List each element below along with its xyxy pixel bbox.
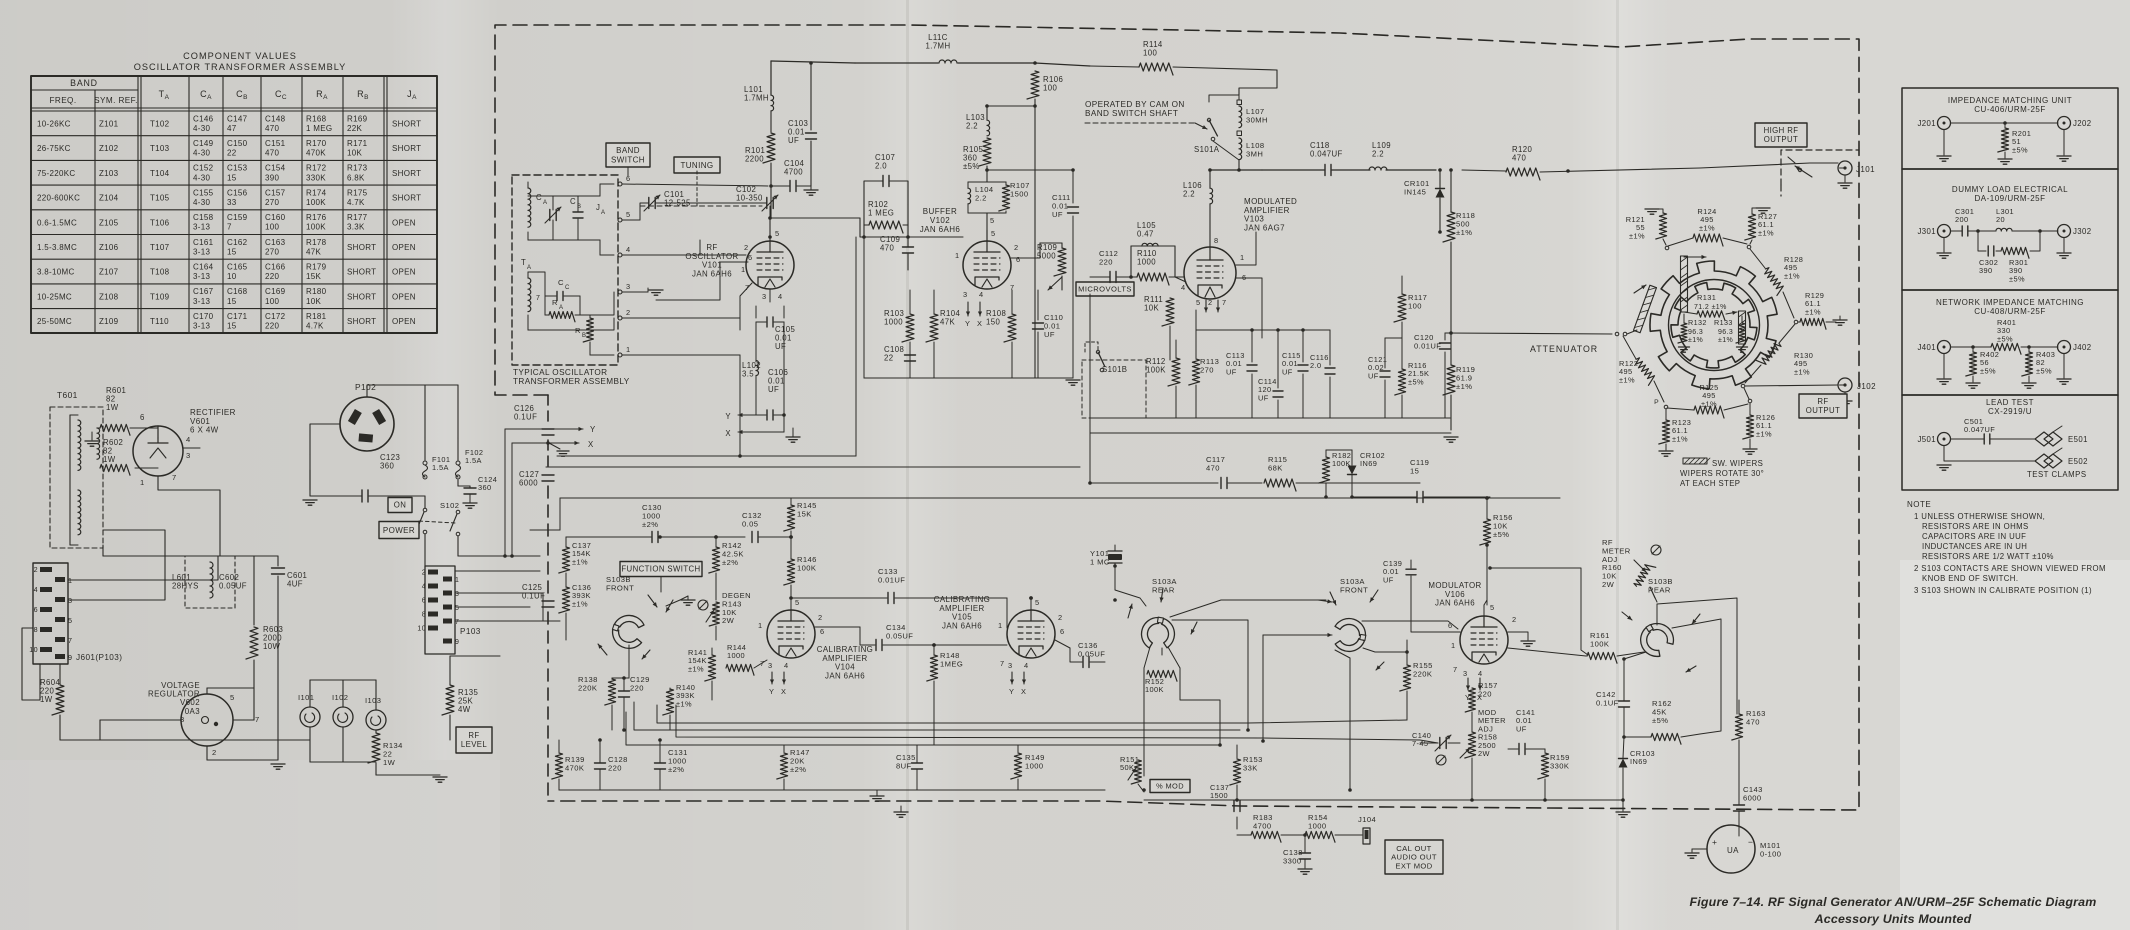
svg-text:NETWORK IMPEDANCE MATCHING: NETWORK IMPEDANCE MATCHING [1936,298,2084,307]
terminals on transformer box [618,182,622,186]
jack J402 [2058,341,2071,354]
svg-text:SHORT: SHORT [347,243,376,252]
svg-text:SHORT: SHORT [347,292,376,301]
svg-text:INDUCTANCES ARE IN UH: INDUCTANCES ARE IN UH [1922,542,2027,551]
svg-text:C1276000: C1276000 [519,470,539,488]
svg-text:R181: R181 [306,312,327,321]
capacitor CB [573,211,583,213]
svg-text:I102: I102 [332,693,348,702]
svg-text:3: 3 [455,591,459,598]
svg-text:C: C [536,193,542,202]
svg-text:R180: R180 [306,287,327,296]
svg-text:26-75KC: 26-75KC [37,144,71,153]
tuning label [674,157,720,173]
svg-text:MICROVOLTS: MICROVOLTS [1078,285,1132,294]
svg-text:2 S103 CONTACTS ARE SHOWN VIE: 2 S103 CONTACTS ARE SHOWN VIEWED FROM [1914,564,2106,573]
svg-text:C168: C168 [227,287,248,296]
svg-text:CAL OUTAUDIO OUTEXT MOD: CAL OUTAUDIO OUTEXT MOD [1391,844,1437,871]
svg-text:9: 9 [68,653,72,662]
svg-text:C: C [565,285,570,291]
svg-text:1: 1 [626,345,631,354]
attenuator wiper arm 2 [1634,285,1657,332]
svg-text:75-220KC: 75-220KC [37,169,75,178]
test clamp E501 [2035,432,2062,446]
svg-text:R125495±1%: R125495±1% [1699,383,1718,408]
svg-text:SHORT: SHORT [392,144,421,153]
svg-text:J201: J201 [1917,119,1936,128]
wire attenuator input [1445,333,1612,334]
svg-text:10K: 10K [306,297,321,306]
svg-text:±1%: ±1% [1688,337,1703,344]
wire mid column x856 [855,237,857,456]
wire V103 plate pins [1236,232,1256,265]
svg-text:1: 1 [955,251,960,260]
svg-text:33: 33 [227,198,237,207]
svg-text:J301: J301 [1917,227,1936,236]
resistor R106 [1027,71,1039,99]
svg-text:Accessory Units Mounted: Accessory Units Mounted [1814,912,1972,926]
svg-text:22K: 22K [347,124,362,133]
svg-text:R179: R179 [306,263,327,272]
svg-text:IMPEDANCE MATCHING UNIT: IMPEDANCE MATCHING UNIT [1948,96,2072,105]
svg-text:4: 4 [34,585,38,594]
svg-text:A: A [543,200,547,206]
svg-text:J102: J102 [1857,382,1876,391]
svg-text:7: 7 [1222,298,1227,307]
svg-text:R603200010W: R603200010W [263,625,283,651]
svg-text:2: 2 [1058,613,1063,622]
svg-text:J401: J401 [1917,343,1936,352]
svg-text:X: X [588,440,594,449]
function switch label [620,562,702,577]
svg-text:5: 5 [1035,598,1040,607]
svg-text:C148: C148 [265,114,286,123]
wire S103B to R138 [612,677,629,679]
svg-text:C1044700: C1044700 [784,159,805,177]
svg-text:1 MEG: 1 MEG [306,124,332,133]
svg-text:8: 8 [422,612,426,619]
svg-text:15: 15 [227,173,237,182]
svg-text:C157: C157 [265,188,286,197]
lamp I102 [333,707,353,727]
svg-text:5: 5 [455,605,459,612]
tube V106 modulator [1460,616,1508,664]
resistor R152 [1144,647,1150,668]
svg-text:POWER: POWER [383,526,415,535]
wire filter bus [103,555,278,557]
svg-text:5: 5 [990,216,995,225]
svg-text:S103BFRONT: S103BFRONT [606,575,634,592]
ground V106 plate [1508,632,1528,640]
svg-text:C1383300: C1383300 [1283,848,1303,865]
svg-text:WIPERS ROTATE 30°: WIPERS ROTATE 30° [1680,469,1764,478]
svg-text:T601: T601 [57,390,78,400]
svg-text:2: 2 [34,565,38,574]
svg-text:J104: J104 [1358,815,1376,824]
wire regulator [253,688,255,720]
attenuator inner gear [1671,283,1757,368]
svg-text:CALIBRATINGAMPLIFIERV104JAN 6A: CALIBRATINGAMPLIFIERV104JAN 6AH6 [817,645,873,680]
svg-text:FUNCTION SWITCH: FUNCTION SWITCH [621,565,700,574]
wire mod amp cathode bus [1169,359,1171,361]
svg-text:100: 100 [265,223,279,232]
wire S101A stub [1213,141,1239,160]
lead test box [1902,395,2118,490]
wire grid coupling to buffer [770,217,860,219]
svg-text:R112100K: R112100K [1146,357,1166,375]
svg-text:R139470K: R139470K [565,755,585,772]
svg-text:R177: R177 [347,213,368,222]
svg-text:P: P [1654,399,1659,406]
resistor R135 [442,685,454,715]
network impedance matching box [1902,290,2118,395]
resistor R402 [1966,352,1977,376]
wire V104 plate row [1006,598,1008,628]
wire S102 to P103 [424,534,426,566]
tube V104 calibrating amplifier [767,610,815,658]
wire Y101 to S103A [1115,566,1146,606]
svg-text:C: C [570,197,576,206]
svg-text:R176: R176 [306,213,327,222]
svg-text:C154: C154 [265,164,286,173]
svg-text:R152100K: R152100K [1145,677,1164,694]
svg-text:2: 2 [1208,298,1213,307]
svg-text:8: 8 [34,625,38,634]
svg-text:F1021.5A: F1021.5A [465,448,483,465]
ground J201 [1943,130,1945,155]
svg-text:P102: P102 [355,382,376,392]
wire band switch terminals [622,184,768,186]
svg-text:J302: J302 [2073,227,2092,236]
svg-text:CALIBRATINGAMPLIFIERV105JAN 6A: CALIBRATINGAMPLIFIERV105JAN 6AH6 [934,595,990,630]
svg-text:R1541000: R1541000 [1308,813,1328,830]
svg-text:NOTE: NOTE [1907,500,1931,509]
wire lower rail C [676,705,1438,743]
svg-text:6: 6 [34,605,38,614]
degen R143 pot [698,600,708,610]
wire P102 left [310,424,340,455]
svg-text:4-30: 4-30 [193,124,210,133]
svg-text:R1834700: R1834700 [1253,813,1273,830]
svg-text:100K: 100K [306,223,326,232]
ground P102 [303,499,317,501]
resistor R602 [100,464,130,475]
svg-text:15: 15 [227,297,237,306]
svg-text:S102: S102 [440,501,459,510]
svg-text:2: 2 [1014,243,1019,252]
voltage regulator V602 [181,694,233,746]
svg-text:4: 4 [979,290,984,299]
svg-text:S101B: S101B [1102,365,1127,374]
wire J501 to E502 [1944,446,2035,461]
svg-text:6: 6 [748,253,753,262]
svg-text:OPEN: OPEN [392,292,416,301]
svg-text:KNOB END OF SWITCH.: KNOB END OF SWITCH. [1922,574,2018,583]
wire switch link A [1170,600,1326,617]
svg-text:C156: C156 [227,188,248,197]
svg-text:Y: Y [590,425,596,434]
svg-text:C1260.1UF: C1260.1UF [514,404,537,422]
svg-text:SW. WIPERS: SW. WIPERS [1712,459,1763,468]
connector P103 [425,566,455,654]
svg-text:5: 5 [1490,603,1495,612]
wire V101 pin7 [740,283,752,330]
svg-text:J: J [596,203,600,212]
svg-text:R155220K: R155220K [1413,661,1433,678]
svg-text:C163: C163 [265,238,286,247]
ground mod amp bottom [1090,432,1451,434]
svg-text:4: 4 [626,245,631,254]
svg-text:5: 5 [795,598,800,607]
svg-text:3: 3 [963,290,968,299]
wire lower rail A [634,702,1240,730]
svg-text:3-13: 3-13 [193,223,210,232]
svg-text:Y: Y [769,687,774,696]
svg-text:100: 100 [265,297,279,306]
svg-text:R178: R178 [306,238,327,247]
svg-text:R174: R174 [306,188,327,197]
svg-text:−: − [1748,837,1753,847]
svg-text:7: 7 [172,473,177,482]
wire tuning shaft [696,171,698,206]
% MOD label [1150,780,1190,793]
svg-text:T102: T102 [150,120,170,129]
svg-text:J601(P103): J601(P103) [76,653,122,662]
svg-text:Y: Y [725,412,731,421]
svg-text:J202: J202 [2073,119,2092,128]
svg-text:4-30: 4-30 [193,149,210,158]
relay contacts [1798,168,1801,171]
svg-text:HIGH RFOUTPUT: HIGH RFOUTPUT [1764,126,1799,144]
svg-text:C159: C159 [227,213,248,222]
wires PS to main box [455,606,530,608]
svg-text:RESISTORS ARE IN OHMS: RESISTORS ARE IN OHMS [1922,522,2029,531]
wire rectifier to filter [183,447,200,449]
svg-text:3-13: 3-13 [193,247,210,256]
impedance matching unit box [1902,88,2118,169]
wire lower ground bus [559,789,1105,791]
svg-text:R133: R133 [1714,318,1733,327]
svg-text:S103AFRONT: S103AFRONT [1340,577,1368,594]
svg-text:A: A [527,265,531,271]
wire L108 to plate bus [1238,160,1240,170]
wire lamps bottom [310,761,376,763]
meter M101 [1707,825,1755,873]
resistor R403 [2022,352,2033,376]
svg-text:Z104: Z104 [99,194,119,203]
wire S103A front contacts [1263,634,1330,636]
svg-text:5: 5 [775,229,780,238]
svg-text:DUMMY LOAD ELECTRICAL: DUMMY LOAD ELECTRICAL [1952,185,2068,194]
wire C117 row [1090,482,1218,484]
attenuator wiper arm 3 [1739,311,1746,344]
svg-text:6: 6 [1060,627,1065,636]
svg-text:X: X [977,319,982,328]
svg-text:220: 220 [265,272,279,281]
resistor R105 [979,138,991,166]
svg-text:R171: R171 [347,139,368,148]
svg-text:OSCILLATOR TRANSFORMER ASSEMBL: OSCILLATOR TRANSFORMER ASSEMBLY [134,62,347,72]
svg-text:E502: E502 [2068,457,2088,466]
svg-text:T108: T108 [150,268,170,277]
svg-text:1: 1 [741,265,746,274]
svg-text:330K: 330K [306,173,326,182]
svg-text:0.6-1.5MC: 0.6-1.5MC [37,218,77,227]
svg-text:4: 4 [1478,669,1483,678]
jack J301 [1938,225,1951,238]
svg-text:1: 1 [1451,641,1456,650]
svg-text:5: 5 [230,693,235,702]
svg-text:1: 1 [998,621,1003,630]
svg-text:Y1011 MC: Y1011 MC [1090,549,1110,566]
svg-text:7: 7 [255,715,260,724]
jack J201 [1938,117,1951,130]
svg-text:R159330K: R159330K [1550,753,1570,770]
svg-text:7: 7 [536,295,540,302]
wire attenuator to J102 [1741,384,1745,388]
wire V106 plate top [1484,600,1487,605]
svg-text:4-30: 4-30 [193,173,210,182]
svg-text:AT EACH STEP: AT EACH STEP [1680,479,1740,488]
svg-text:L1083MH: L1083MH [1246,141,1265,158]
wire top bus to R114 [1035,63,1090,66]
wire switch link B [1490,568,1588,655]
svg-text:25-50MC: 25-50MC [37,317,72,326]
svg-text:4-30: 4-30 [193,198,210,207]
svg-text:R168: R168 [306,114,327,123]
svg-text:SHORT: SHORT [347,268,376,277]
svg-text:96.3: 96.3 [1688,329,1703,336]
svg-text:% MOD: % MOD [1156,782,1184,791]
svg-text:T: T [521,258,526,267]
svg-text:15K: 15K [306,272,321,281]
Y X arrows V102 [967,302,969,316]
main chassis dashed outline [495,25,1859,810]
svg-text:OPEN: OPEN [392,268,416,277]
svg-text:5: 5 [68,616,72,625]
wire osc transformer top [528,195,600,197]
svg-text:3 S103 SHOWN IN CALIBRATE POS: 3 S103 SHOWN IN CALIBRATE POSITION (1) [1914,586,2092,595]
svg-text:C155: C155 [193,188,214,197]
svg-text:22: 22 [227,149,237,158]
svg-text:7: 7 [68,636,72,645]
wire R151 tail [1138,784,1144,792]
svg-text:4: 4 [784,661,789,670]
wire bottom J104 row [1236,817,1238,829]
svg-text:C158: C158 [193,213,214,222]
svg-text:270: 270 [265,247,279,256]
microvolts input wire [1089,277,1091,283]
svg-text:I103: I103 [365,696,381,705]
wire CR101 R118 join [1440,231,1451,233]
svg-text:Z103: Z103 [99,169,119,178]
svg-text:FREQ.: FREQ. [49,96,76,105]
lamp I101 [300,707,320,727]
svg-text:SHORT: SHORT [392,120,421,129]
resistor R201 [1998,128,2009,152]
svg-text:470: 470 [265,149,279,158]
svg-text:SHORT: SHORT [392,169,421,178]
svg-text:+: + [1712,837,1717,847]
svg-text:390: 390 [265,173,279,182]
svg-text:C153: C153 [227,164,248,173]
svg-text:B: B [582,333,586,339]
svg-text:7: 7 [455,619,459,626]
wire P103 to C125 [455,592,543,594]
capacitor C124 [457,480,459,486]
svg-text:C152: C152 [193,164,214,173]
svg-text:I101: I101 [298,693,314,702]
svg-text:Z109: Z109 [99,317,119,326]
svg-text:96.3: 96.3 [1718,329,1733,336]
svg-text:Z105: Z105 [99,218,119,227]
svg-text:A: A [601,210,605,216]
wire V101 grid pins [700,240,746,255]
svg-text:C160: C160 [265,213,286,222]
svg-text:1: 1 [1240,253,1245,262]
svg-text:SHORT: SHORT [347,317,376,326]
tube V105 calibrating amplifier [1007,610,1055,658]
svg-text:47: 47 [227,124,237,133]
resistor R134 [368,733,380,763]
wire lower top bus 1 [546,466,1080,468]
variable capacitor C102 [766,198,768,209]
svg-text:R1071500: R1071500 [1010,181,1030,198]
wire TA to terminals [528,272,545,296]
svg-text:SYM. REF.: SYM. REF. [94,96,138,105]
svg-text:R1481MEG: R1481MEG [940,651,963,668]
resistor R601 [100,424,130,435]
svg-text:2: 2 [818,613,823,622]
svg-text:J402: J402 [2073,343,2092,352]
svg-text:Z108: Z108 [99,292,119,301]
svg-text:47K: 47K [306,247,321,256]
svg-text:2: 2 [422,570,426,577]
resistor RB [583,318,593,342]
svg-text:10-25MC: 10-25MC [37,292,72,301]
svg-text:DA-109/URM-25F: DA-109/URM-25F [1974,194,2045,203]
svg-text:C147: C147 [227,114,248,123]
svg-text:R1095000: R1095000 [1037,243,1057,261]
svg-text:1: 1 [455,577,459,584]
svg-text:R169: R169 [347,114,368,123]
svg-text:10: 10 [29,645,38,654]
microvolts label [1076,282,1134,296]
svg-text:4: 4 [778,292,783,301]
wire V102 plate [1011,243,1040,258]
wire R160 to switch [1650,587,1657,602]
svg-text:4: 4 [422,584,426,591]
ground J401 [1943,354,1945,378]
variable cap CA [549,210,551,221]
attenuator ring [1669,280,1760,371]
junction dots buses [1088,481,1092,485]
svg-text:15: 15 [227,322,237,331]
wire lamps top [310,679,376,681]
svg-text:C167: C167 [193,287,214,296]
svg-text:OPERATED BY CAM ONBAND SWITCH: OPERATED BY CAM ONBAND SWITCH SHAFT [1085,100,1185,118]
svg-text:2: 2 [744,243,749,252]
svg-text:3-13: 3-13 [193,322,210,331]
wires PS left [22,628,40,700]
svg-text:3: 3 [1463,669,1468,678]
wire J201 J202 [1951,122,2058,124]
svg-text:R: R [552,298,558,307]
svg-text:R173: R173 [347,164,368,173]
svg-text:S101A: S101A [1194,145,1220,154]
wire C102 to grid [769,206,771,218]
svg-text:3: 3 [762,292,767,301]
